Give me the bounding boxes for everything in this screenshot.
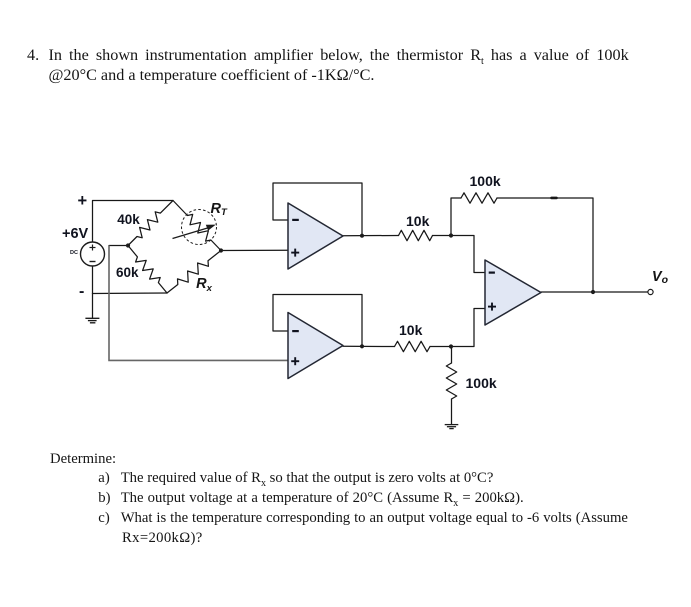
voltage source V1 circle — [81, 242, 105, 266]
wire node A to U3 - input — [451, 236, 485, 273]
wire bridge right node to U1 + input — [221, 249, 288, 251]
thermistor RT arrow — [173, 225, 216, 239]
determine text block — [50, 452, 116, 467]
wire U2 feedback loop — [273, 295, 362, 347]
junction output node — [591, 290, 595, 294]
resistor 100k (feedback top) — [461, 193, 497, 203]
junction node at bridge right — [219, 248, 223, 252]
resistor 10k (bottom) — [395, 341, 431, 351]
label 10k (top) — [406, 214, 429, 228]
junction node A — [449, 233, 453, 237]
label Rx — [196, 277, 212, 294]
wire (gray) bridge left node to U2 + input — [109, 246, 288, 361]
label 10k (bottom) — [399, 323, 422, 337]
terminal Vo open circle — [648, 289, 653, 294]
thermistor RT dashed circle — [182, 210, 217, 245]
wire U1 feedback loop — [273, 183, 362, 236]
voltage source V1 plus mark — [90, 245, 96, 251]
wire ground stem — [92, 294, 94, 319]
op-amp U3 (difference stage) — [485, 260, 541, 325]
resistor 40k (bridge top-left arm) — [128, 201, 173, 246]
op-amp U1 (top buffer) — [288, 203, 343, 269]
junction node at bridge left — [126, 243, 130, 247]
wire 10k to node B — [430, 346, 451, 348]
wire source bottom to bottom rail — [92, 266, 94, 294]
wire bottom rail to bridge bottom — [93, 292, 168, 295]
problem statement text — [27, 47, 39, 63]
ground 2 (under 100k) — [445, 425, 459, 429]
label - (source negative terminal) — [79, 284, 84, 300]
wire 100k to output node — [497, 198, 593, 292]
label 100k (to ground) — [466, 376, 497, 390]
wire U2 output to 10k — [343, 345, 395, 347]
label RT — [211, 202, 227, 218]
label 40k — [117, 213, 140, 227]
resistor 60k (bridge bottom-left arm) — [128, 246, 167, 294]
thermistor RT zigzag (bridge top-right arm) — [173, 201, 221, 251]
wire node B to U3 + input — [451, 309, 485, 347]
op-amp U2 (bottom buffer) — [288, 313, 343, 379]
junction U2 feedback/output — [360, 344, 364, 348]
wire U1 output to 10k — [343, 235, 399, 237]
wire node B down to 100k — [451, 347, 453, 364]
wire top rail from source + to bridge top — [93, 201, 174, 243]
resistor 10k (top) — [399, 230, 433, 240]
wire 100k to ground 2 — [451, 399, 453, 425]
ground 1 (under source) — [85, 318, 99, 323]
resistor Rx (bridge bottom-right arm) — [167, 251, 221, 294]
label Vo — [652, 270, 668, 286]
label 100k (feedback) — [470, 174, 501, 188]
wire U3 output to Vo terminal — [541, 291, 648, 293]
label DC — [70, 251, 78, 257]
junction node B — [449, 344, 453, 348]
label +6V — [62, 227, 88, 242]
junction U1 feedback/output — [360, 234, 364, 238]
wire bridge left node stub — [109, 245, 128, 247]
wire 10k to node A — [433, 235, 452, 237]
wire overlap tick — [552, 197, 557, 200]
label 60k — [116, 266, 139, 280]
wire node A up to 100k feedback — [451, 198, 461, 236]
label + (source positive terminal) — [78, 193, 88, 210]
voltage source V1 minus mark — [90, 261, 96, 263]
resistor 100k (to ground) — [446, 363, 456, 399]
